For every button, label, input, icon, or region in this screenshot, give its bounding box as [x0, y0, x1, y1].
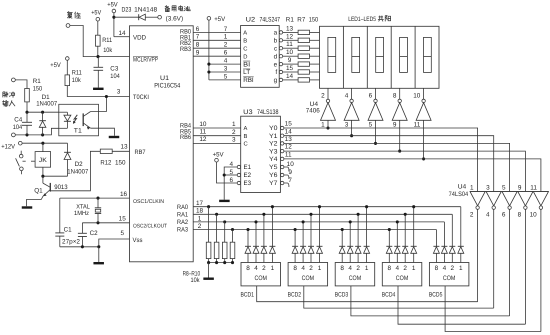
svg-text:VDD: VDD: [133, 34, 146, 41]
svg-text:RA3: RA3: [177, 227, 188, 234]
svg-text:R12: R12: [100, 160, 111, 167]
svg-text:PIC16C54: PIC16C54: [154, 83, 180, 90]
resistor R1 150: [298, 30, 319, 34]
svg-text:B: B: [243, 39, 247, 45]
svg-text:3: 3: [486, 184, 490, 191]
digit figure LED3: [376, 37, 384, 72]
ground (Q1 emitter): [22, 206, 33, 208]
BCD switch BCD4: [382, 263, 422, 299]
diode BCD2 pin 8: [292, 228, 298, 263]
svg-text:RA1: RA1: [177, 211, 188, 218]
svg-text:15: 15: [119, 216, 127, 223]
diode BCD2 pin 1: [317, 205, 323, 262]
svg-text:BCD3: BCD3: [335, 291, 349, 298]
svg-text:10: 10: [199, 121, 207, 128]
label 27p x2: [62, 239, 80, 246]
svg-text:15: 15: [285, 121, 293, 128]
svg-text:2: 2: [356, 265, 360, 272]
ground (pulldown resistors): [203, 278, 214, 280]
svg-text:2: 2: [470, 212, 474, 219]
digit figure LED1: [328, 37, 336, 72]
svg-text:Vss: Vss: [133, 237, 143, 244]
svg-text:BCD5: BCD5: [429, 291, 443, 298]
wire U2 control pin 5: [209, 73, 241, 80]
svg-text:150: 150: [309, 17, 319, 24]
svg-text:Y1: Y1: [269, 133, 278, 140]
svg-text:LED1–LED5: LED1–LED5: [348, 16, 376, 23]
label 备用电池 (3.6V): [165, 5, 190, 22]
svg-text:Y2: Y2: [269, 141, 278, 148]
node +5V / D23 junction: [112, 16, 115, 19]
wire oscillator ground rail: [60, 245, 101, 262]
svg-text:2: 2: [309, 265, 313, 272]
wire net Y3 bus: [284, 151, 526, 191]
svg-text:2: 2: [451, 265, 455, 272]
wire emitter to ground: [91, 128, 115, 136]
svg-text:6: 6: [196, 26, 200, 33]
resistor R7 150: [298, 78, 319, 82]
diode BCD1 pin 4: [253, 220, 259, 262]
svg-text:17: 17: [196, 200, 204, 207]
output bubble U2 pin 11: [279, 41, 298, 50]
svg-text:5: 5: [224, 73, 228, 80]
svg-text:11: 11: [200, 129, 207, 136]
wire net Y4 bus: [284, 159, 541, 192]
label D23 1N4148: [122, 6, 158, 13]
svg-text:RB6: RB6: [180, 134, 191, 141]
wire RA2 keypad line pin 1: [193, 215, 444, 223]
svg-text:1MHz: 1MHz: [74, 210, 89, 217]
svg-text:14: 14: [118, 30, 126, 37]
svg-text:4: 4: [230, 161, 234, 168]
wire pulldown common rail: [207, 261, 234, 277]
output bubble U3 Y1 pin 14: [281, 128, 293, 137]
svg-text:1N4148: 1N4148: [134, 6, 157, 13]
output bubble U3 Y0 pin 15: [281, 121, 293, 130]
wire OSC2/CLKOUT pin 15: [82, 216, 129, 225]
svg-text:D: D: [243, 54, 247, 60]
inverter U4 74LS04 gate 3/4: [486, 184, 501, 308]
wire input to R1: [15, 80, 27, 89]
svg-text:7: 7: [288, 177, 292, 184]
label D1 1N4007: [36, 94, 57, 108]
wire COM5 to inverter: [445, 286, 541, 332]
svg-text:Y7: Y7: [269, 180, 278, 187]
svg-text:U2: U2: [246, 17, 256, 24]
resistor R6 150: [298, 70, 319, 74]
output bubble U3 Y4 pin 11: [281, 152, 292, 161]
wire OSC1/CLKIN pin 16: [60, 191, 130, 200]
optocoupler LED: [59, 112, 71, 128]
svg-text:14: 14: [286, 73, 294, 80]
power +5V (T0CKI pullup): [50, 57, 69, 75]
enable bubble E1 pin 4: [230, 161, 241, 169]
svg-text:1: 1: [271, 265, 275, 272]
resistor R1 150: [25, 78, 43, 102]
resistor R3 150: [298, 46, 319, 50]
resistor R12 150: [100, 144, 129, 154]
node bus Y4 junction: [422, 157, 425, 160]
svg-text:10: 10: [286, 49, 294, 56]
svg-text:+12V: +12V: [1, 143, 15, 150]
inverter U4 74LS04 gate 1/2: [470, 184, 485, 301]
label 复位 (reset): [67, 11, 81, 18]
diode BCD4 pin 2: [402, 213, 408, 263]
svg-text:RB3: RB3: [180, 46, 191, 53]
svg-text:C: C: [243, 45, 247, 52]
svg-text:Y4: Y4: [269, 156, 278, 163]
svg-text:13: 13: [285, 136, 293, 143]
wire COM3 to inverter: [351, 286, 510, 316]
svg-text:9013: 9013: [54, 184, 68, 191]
svg-text:E3: E3: [244, 180, 252, 187]
svg-text:OSC2/CLKOUT: OSC2/CLKOUT: [133, 224, 168, 230]
svg-text:16: 16: [120, 191, 128, 198]
BCD switch BCD5: [429, 263, 469, 299]
svg-text:74LS04: 74LS04: [449, 191, 469, 198]
svg-text:(3.6V): (3.6V): [166, 16, 184, 23]
wire U2 control pin 4: [209, 58, 241, 65]
svg-text:JK: JK: [39, 157, 48, 164]
svg-text:R1: R1: [33, 78, 41, 85]
svg-text:1: 1: [232, 121, 236, 128]
svg-text:Y6: Y6: [269, 172, 278, 179]
label Q1 9013: [34, 184, 68, 194]
svg-text:2: 2: [262, 265, 266, 272]
output bubble U2 pin 15: [279, 65, 298, 74]
svg-text:13: 13: [120, 144, 128, 151]
node bus Y0 junction: [326, 126, 329, 129]
resistor R5 150: [298, 62, 319, 66]
svg-text:8: 8: [388, 265, 392, 272]
svg-text:RBI: RBI: [243, 77, 254, 84]
wire Q1 base to R12: [50, 151, 100, 191]
svg-text:BCD2: BCD2: [288, 291, 302, 298]
transistor Q1 9013: [27, 176, 51, 206]
svg-text:12: 12: [286, 33, 294, 40]
node bus Y2 junction: [374, 142, 377, 145]
wire R1 to node A: [26, 102, 28, 112]
svg-text:U4: U4: [458, 184, 467, 191]
svg-text:R1: R1: [286, 17, 294, 24]
diode BCD3 pin 4: [347, 220, 353, 262]
svg-text:Y0: Y0: [269, 125, 278, 132]
svg-text:COM: COM: [302, 275, 315, 282]
inverter U4 7406 gate 2/1: [321, 99, 336, 128]
enable bubble E2 pin 5: [230, 169, 241, 177]
diode BCD3 pin 8: [339, 228, 345, 263]
svg-text:3: 3: [224, 65, 228, 72]
wire RA0 keypad line pin 17: [193, 200, 461, 208]
inverter row U4 74LS04 top edge: [470, 191, 549, 193]
optocoupler phototransistor: [83, 112, 90, 130]
svg-text:E2: E2: [244, 172, 252, 179]
optocoupler light arrow: [73, 115, 77, 124]
resistor R11 10k (reset pullup): [96, 35, 113, 54]
svg-text:4: 4: [396, 265, 400, 272]
node bus Y1 junction: [350, 134, 353, 137]
BCD switch BCD2: [288, 263, 328, 299]
svg-text:COM: COM: [443, 275, 456, 282]
output stub U3 Y6 pin 9: [281, 169, 293, 179]
svg-text:5: 5: [121, 230, 125, 237]
diode BCD4 pin 8: [386, 228, 392, 263]
svg-text:10: 10: [287, 161, 295, 168]
digit figure LED4: [400, 37, 408, 72]
svg-text:4: 4: [254, 265, 258, 272]
resistor R4 150: [298, 54, 319, 58]
capacitor C1 27p: [55, 198, 72, 247]
node LT junction: [207, 70, 210, 73]
node T0CKI junction: [105, 95, 108, 98]
output bubble U2 pin 9: [279, 57, 298, 66]
svg-text:2: 2: [321, 93, 325, 100]
microcontroller U1 PIC16C54: [130, 26, 194, 262]
svg-text:150: 150: [33, 86, 43, 93]
svg-text:8: 8: [393, 93, 397, 100]
svg-text:BCD1: BCD1: [241, 291, 255, 298]
wire COM4 to inverter: [398, 286, 525, 324]
svg-text:15: 15: [286, 65, 294, 72]
inverter U4 74LS04 gate 11/10: [530, 184, 549, 331]
wire collector to T0CKI: [91, 97, 107, 112]
svg-text:T1: T1: [74, 127, 82, 134]
svg-text:Q1: Q1: [34, 187, 43, 194]
svg-text:BCD4: BCD4: [382, 291, 396, 298]
svg-text:4: 4: [443, 265, 447, 272]
svg-text:104: 104: [13, 124, 23, 131]
diode BCD4 pin 1: [411, 205, 417, 262]
node BI junction: [207, 63, 210, 66]
svg-text:BI: BI: [243, 61, 250, 68]
svg-text:9: 9: [196, 50, 200, 57]
svg-text:U3: U3: [243, 109, 253, 116]
svg-text:1: 1: [470, 184, 474, 191]
relay contacts: [16, 151, 35, 175]
output bubble U3 Y2 pin 13: [281, 136, 293, 145]
svg-text:D23: D23: [122, 6, 132, 13]
inverter U4 7406 gate 4/3: [344, 99, 359, 135]
wire net Y1 bus: [284, 136, 494, 192]
optocoupler T1 body: [59, 104, 99, 136]
diode BCD5 pin 1: [458, 207, 464, 263]
ground (oscillator): [93, 262, 104, 264]
node A (upper input rail): [25, 111, 58, 114]
label R12 150: [100, 160, 126, 167]
label R8-R10 10k: [183, 271, 201, 284]
svg-text:+5V: +5V: [91, 9, 102, 16]
svg-text:6: 6: [369, 93, 373, 100]
svg-text:a: a: [274, 30, 278, 37]
capacitor C3 104: [94, 57, 121, 88]
svg-text:7: 7: [224, 26, 228, 33]
diode BCD1 pin 1: [269, 205, 275, 262]
display LED1-LED5 common anode: [320, 26, 440, 88]
power +5V (VDD): [107, 2, 118, 37]
svg-text:f: f: [275, 69, 277, 76]
svg-text:4: 4: [224, 58, 228, 65]
diode BCD5 pin 8: [433, 230, 439, 263]
label XTAL 1MHz: [74, 204, 90, 218]
svg-text:RB7: RB7: [135, 149, 146, 156]
label T1: [74, 127, 82, 134]
wire display COM pin 2: [321, 88, 328, 99]
svg-text:D2: D2: [75, 161, 83, 168]
diode D2 1N4007 flyback: [43, 143, 71, 176]
wire reset to MCLR: [70, 26, 130, 57]
svg-text:9: 9: [288, 57, 292, 64]
svg-text:6: 6: [224, 50, 228, 57]
svg-text:14: 14: [285, 128, 293, 135]
svg-text:150: 150: [115, 160, 126, 167]
svg-text:E1: E1: [244, 164, 252, 171]
svg-text:C3: C3: [110, 66, 118, 73]
diode BCD5 pin 2: [449, 214, 455, 262]
svg-text:8: 8: [246, 265, 250, 272]
svg-text:C: C: [244, 141, 248, 148]
svg-text:10: 10: [530, 212, 538, 219]
svg-text:7: 7: [196, 34, 200, 41]
terminal pulse input -: [12, 133, 16, 137]
svg-text:6: 6: [230, 177, 234, 184]
svg-text:R11: R11: [72, 69, 82, 76]
svg-text:MCLR/VPP: MCLR/VPP: [133, 57, 158, 64]
svg-text:1: 1: [459, 265, 463, 272]
wire VDD pin 14: [114, 30, 130, 37]
svg-text:4: 4: [486, 212, 490, 219]
svg-text:104: 104: [110, 73, 120, 80]
svg-text:COM: COM: [255, 275, 268, 282]
svg-text:1: 1: [224, 34, 228, 41]
label 脉冲输入 (pulse input): [2, 92, 15, 107]
svg-text:10k: 10k: [103, 47, 113, 54]
svg-text:8: 8: [293, 265, 297, 272]
diode BCD2 pin 2: [308, 213, 314, 263]
diode BCD3 pin 1: [364, 205, 370, 262]
svg-text:b: b: [274, 38, 278, 45]
power +5V (U2 BI/LT/RBI): [207, 16, 226, 80]
diode BCD2 pin 4: [300, 220, 306, 262]
svg-text:1N4007: 1N4007: [36, 101, 57, 108]
relay JK coil: [35, 143, 51, 176]
svg-text:RA0: RA0: [177, 204, 188, 211]
svg-text:+5V: +5V: [213, 151, 225, 158]
label LED1-LED5 共阳: [348, 16, 390, 23]
enable bubble E3 pin 6: [230, 177, 241, 185]
svg-text:Y3: Y3: [269, 148, 278, 155]
diode BCD1 pin 2: [261, 213, 267, 263]
svg-text:U1: U1: [160, 75, 169, 82]
svg-text:COM: COM: [349, 275, 362, 282]
label R1 R7 150 segment resistors: [286, 17, 319, 24]
diode BCD5 pin 4: [441, 222, 447, 263]
wire U2 control pin 3: [209, 65, 241, 72]
resistor R11 10k (T0CKI pullup): [65, 69, 82, 85]
resistor R2 150: [298, 38, 319, 42]
diode BCD1 pin 8: [245, 228, 251, 263]
svg-text:+5V: +5V: [214, 16, 226, 23]
digit figure LED5: [424, 37, 432, 72]
ground (C3): [93, 88, 104, 90]
diode D23 1N4148 backup battery: [114, 14, 158, 20]
svg-text:9: 9: [288, 169, 292, 176]
svg-text:3: 3: [345, 121, 349, 128]
svg-text:+5V: +5V: [107, 2, 118, 9]
diode BCD4 pin 4: [394, 220, 400, 262]
resistor pulldown RA0: [206, 207, 211, 263]
svg-text:9: 9: [518, 184, 522, 191]
svg-text:11: 11: [530, 184, 537, 191]
label U4 7406: [306, 101, 320, 114]
wire display COM pin 10: [413, 88, 423, 99]
inverter U4 7406 gate 6/5: [368, 99, 383, 143]
terminal reset input: [66, 24, 70, 28]
wire T0CKI pin 3: [67, 86, 129, 97]
svg-text:OSC1/CLKIN: OSC1/CLKIN: [133, 199, 164, 205]
svg-text:2: 2: [224, 42, 228, 49]
svg-text:74LS138: 74LS138: [257, 109, 279, 116]
wire net Y2 bus: [284, 143, 510, 191]
output bubble U2 pin 13: [279, 25, 298, 34]
svg-text:C1: C1: [64, 227, 72, 234]
svg-text:Y5: Y5: [269, 164, 278, 171]
svg-text:2: 2: [403, 265, 407, 272]
wire R11 to MCLR node: [97, 46, 99, 56]
svg-text:2: 2: [198, 223, 202, 230]
svg-text:1: 1: [365, 265, 369, 272]
decoder U2 74LS247: [241, 17, 281, 88]
wire RB1 to 74LS247 pin: [193, 34, 240, 41]
digit figure LED2: [352, 37, 360, 72]
node +12V junction: [41, 142, 44, 145]
output bubble U2 pin 10: [279, 49, 298, 58]
wire COM1 to inverter: [257, 286, 478, 302]
svg-text:5: 5: [502, 184, 506, 191]
svg-text:27p×2: 27p×2: [62, 239, 80, 246]
svg-text:A: A: [243, 31, 247, 37]
svg-text:4: 4: [348, 265, 352, 272]
wire COM2 to inverter: [304, 286, 494, 308]
diode BCD3 pin 2: [355, 213, 361, 263]
svg-text:COM: COM: [396, 275, 409, 282]
svg-text:74LS247: 74LS247: [260, 17, 281, 24]
capacitor C4 104: [13, 112, 32, 135]
output bubble U2 pin 12: [279, 33, 298, 42]
output stub U3 Y7 pin 7: [281, 177, 293, 187]
power +5V (reset pullup): [91, 9, 102, 35]
svg-text:4: 4: [301, 265, 305, 272]
svg-text:13: 13: [286, 25, 294, 32]
output bubble U3 Y3 pin 12: [281, 144, 293, 153]
svg-text:8: 8: [435, 265, 439, 272]
wire RA1 keypad line pin 18: [193, 208, 452, 216]
inverter U4 74LS04 gate 9/8: [518, 184, 533, 324]
inverter U4 74LS04 gate 5/6: [502, 184, 517, 316]
wire RB4 to 74LS138 pin 1: [193, 121, 241, 128]
svg-text:R7: R7: [297, 17, 305, 24]
wire RB6 to 74LS138 pin 3: [193, 136, 241, 143]
svg-text:B: B: [244, 134, 248, 140]
svg-text:R11: R11: [102, 37, 112, 44]
svg-text:5: 5: [369, 121, 373, 128]
svg-text:RA2: RA2: [177, 219, 188, 226]
wire display COM pin 8: [393, 88, 400, 99]
BCD switch BCD1: [241, 263, 281, 299]
crystal XTAL 1MHz: [95, 198, 101, 223]
output bubble U2 pin 14: [279, 73, 298, 82]
svg-text:8: 8: [340, 265, 344, 272]
terminal pulse input +: [12, 78, 16, 82]
